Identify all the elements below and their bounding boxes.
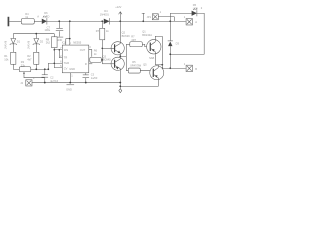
- svg-text:NE555: NE555: [73, 41, 81, 45]
- capacitor C3: [85, 73, 87, 75]
- resistor R1: [11, 52, 16, 64]
- wire base tie line: [101, 40, 103, 64]
- svg-text:0R47/5W: 0R47/5W: [130, 63, 141, 67]
- wire top rail: [47, 20, 104, 22]
- svg-text:SAB: SAB: [149, 56, 154, 60]
- svg-text:10k: 10k: [4, 57, 9, 61]
- ground: [66, 84, 74, 86]
- node dot: [169, 53, 171, 55]
- svg-text:Q1: Q1: [142, 29, 146, 33]
- svg-text:BC640: BC640: [103, 57, 111, 61]
- svg-text:+12V: +12V: [115, 5, 121, 9]
- jumper stub: [142, 20, 144, 22]
- transistor Q3: [111, 57, 124, 70]
- 555 right pin stub: [89, 63, 93, 65]
- svg-text:R1: R1: [4, 54, 8, 58]
- node dot: [119, 20, 121, 22]
- 555 pin3 wire: [89, 50, 92, 57]
- node dot: [169, 67, 171, 69]
- svg-text:1N4148: 1N4148: [28, 40, 31, 49]
- svg-text:R5: R5: [132, 60, 136, 64]
- pad JP1: [152, 14, 158, 20]
- capacitor C7: [58, 21, 60, 28]
- resistor R8: [51, 37, 57, 48]
- diode D3: [169, 21, 171, 41]
- node dot: [101, 20, 103, 22]
- svg-text:CV: CV: [64, 66, 68, 70]
- transistor Q2: [111, 42, 124, 55]
- battery terminal bar: [8, 17, 10, 27]
- svg-text:DIS: DIS: [64, 48, 69, 52]
- ground C7: [56, 36, 63, 38]
- resistor R7b 4R7: [126, 43, 130, 45]
- diode D4: [104, 19, 110, 24]
- zener D2: [35, 34, 37, 39]
- node dot rail end: [119, 82, 121, 84]
- svg-text:D3: D3: [176, 41, 180, 45]
- zener D1: [12, 34, 14, 39]
- svg-text:BD242A: BD242A: [142, 33, 152, 37]
- resistor R4: [21, 18, 34, 24]
- LED D6: [42, 19, 47, 24]
- svg-text:GND: GND: [69, 67, 75, 71]
- wire network left of IC: [48, 48, 59, 70]
- svg-text:R8: R8: [46, 37, 50, 41]
- svg-text:D6: D6: [44, 11, 48, 15]
- 555 left pin wires: [48, 50, 62, 68]
- LED D5: [192, 11, 197, 16]
- node dot: [161, 64, 163, 66]
- wire bases: [102, 47, 114, 49]
- wire D5 loop: [170, 13, 204, 54]
- svg-text:D2: D2: [40, 39, 44, 43]
- svg-text:C3: C3: [91, 72, 95, 76]
- trimmer wiper: [24, 73, 45, 78]
- svg-text:22k: 22k: [21, 63, 26, 67]
- capacitor C2: [44, 69, 46, 74]
- wire IC supply pins: [66, 21, 70, 45]
- svg-text:LED: LED: [193, 6, 198, 10]
- wire bottom rail: [32, 82, 120, 84]
- resistor R6: [90, 57, 102, 62]
- wire: [34, 20, 42, 22]
- trimmer R3: [19, 67, 31, 72]
- svg-text:TR: TR: [64, 55, 68, 59]
- svg-text:GND: GND: [66, 88, 72, 92]
- wire x162 vertical: [161, 36, 163, 68]
- svg-text:D4: D4: [104, 9, 108, 13]
- svg-text:2k2: 2k2: [46, 41, 51, 45]
- 555 gnd pin: [69, 73, 71, 83]
- svg-text:1N4001: 1N4001: [100, 12, 110, 16]
- svg-text:B: B: [195, 67, 197, 71]
- transistor Q1: [147, 40, 161, 54]
- svg-text:R7: R7: [131, 34, 135, 38]
- wire output to R7b: [120, 44, 126, 70]
- resistor R2: [34, 52, 39, 64]
- svg-text:Q5: Q5: [143, 63, 147, 67]
- svg-text:R7: R7: [96, 29, 100, 33]
- transistor Q5: [150, 66, 164, 80]
- wire emitter junction: [119, 83, 121, 89]
- wire mid rail y33: [13, 33, 54, 35]
- svg-text:R6: R6: [94, 49, 98, 53]
- node dot: [161, 67, 163, 69]
- pad B: [186, 65, 192, 71]
- node dot Q2/Q3 output: [119, 55, 121, 57]
- svg-text:A: A: [37, 15, 39, 19]
- wire: [110, 20, 144, 22]
- svg-text:R2: R2: [27, 54, 31, 58]
- svg-text:JP1: JP1: [147, 15, 152, 19]
- wire Q1 emitter row: [155, 64, 162, 66]
- node dot: [169, 20, 171, 22]
- wire output rail: [162, 67, 186, 69]
- svg-text:100u: 100u: [44, 28, 50, 32]
- pad J2: [26, 80, 32, 86]
- svg-text:OUT: OUT: [80, 48, 86, 52]
- svg-text:1u/63: 1u/63: [91, 76, 98, 80]
- +12V supply arrow: [119, 12, 122, 22]
- svg-text:Q2: Q2: [122, 30, 126, 34]
- svg-text:4R7: 4R7: [131, 38, 136, 42]
- resistor R7: [101, 21, 103, 28]
- transistor Q2 collector wire: [119, 21, 121, 42]
- supply diamond: [119, 89, 122, 93]
- resistor R5: [128, 68, 140, 73]
- node dot: [69, 20, 71, 22]
- node dot: [58, 20, 60, 22]
- pad A: [186, 19, 192, 25]
- svg-text:THR: THR: [64, 61, 69, 65]
- svg-text:D1: D1: [17, 39, 21, 43]
- svg-text:4k7: 4k7: [27, 57, 32, 61]
- svg-text:BC639: BC639: [122, 34, 130, 38]
- wire: [9, 20, 21, 22]
- svg-text:A: A: [195, 20, 197, 24]
- 555 IC1: [62, 45, 89, 73]
- svg-text:1N4148: 1N4148: [5, 40, 8, 49]
- svg-text:D5: D5: [193, 3, 197, 7]
- svg-text:LED: LED: [44, 15, 49, 19]
- svg-text:R: R: [85, 62, 87, 66]
- wire rail right: [143, 20, 186, 22]
- wire LED D5 branch: [170, 13, 191, 21]
